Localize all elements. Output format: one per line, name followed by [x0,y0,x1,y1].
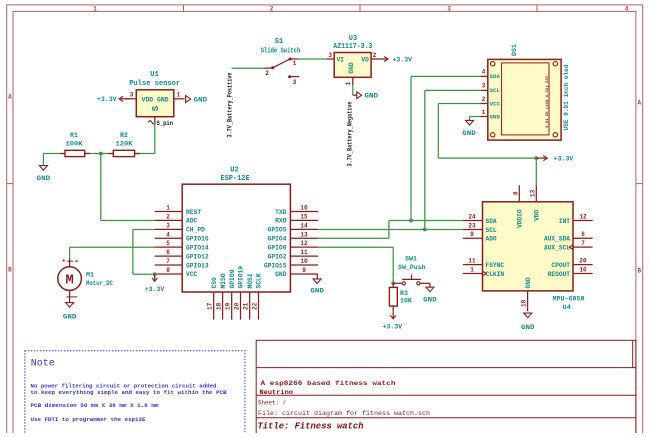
ground at R1 [37,166,51,184]
svg-text:0.91 IN (128 X 32) I2C: 0.91 IN (128 X 32) I2C [545,76,549,128]
U2 pin 13 lead [290,231,318,238]
svg-text:M: M [65,273,73,289]
svg-text:GND: GND [63,314,77,322]
U2 pin 21 lead [243,292,250,320]
svg-text:9: 9 [302,267,306,274]
svg-text:GPIO13: GPIO13 [186,262,209,269]
U2 pin 22 lead [252,292,259,320]
svg-text:3.7V_Battery_Negative: 3.7V_Battery_Negative [346,101,353,166]
U3 pin 3 lead [327,52,334,59]
U4 pin 18 lead [521,291,528,311]
svg-text:GPIO2: GPIO2 [268,253,287,260]
U2 pin 2 lead [155,213,183,220]
svg-text:8: 8 [166,267,170,274]
power +3.3V at U1 [97,96,130,104]
svg-text:GND: GND [490,114,501,121]
svg-text:GND: GND [365,93,379,101]
svg-text:8: 8 [512,191,519,195]
power +3.3V below R3 [383,306,403,331]
ground at U2 pin 9 [310,279,324,295]
svg-text:DS1: DS1 [511,44,518,56]
svg-text:18: 18 [521,299,528,307]
svg-text:S_pin: S_pin [157,120,174,127]
U4 pin 13 lead [529,185,536,202]
svg-text:Title: Fitness watch: Title: Fitness watch [258,421,364,432]
svg-text:1: 1 [470,267,474,274]
svg-text:AUX_SDA: AUX_SDA [544,236,570,243]
svg-text:MOSI: MOSI [247,273,254,288]
svg-text:GPIO12: GPIO12 [186,253,209,260]
svg-text:SCL: SCL [486,227,497,234]
ground at U4 [521,313,535,332]
svg-text:MPU-6050: MPU-6050 [553,296,585,304]
svg-text:VDDIO: VDDIO [517,209,524,228]
U2 pin 3 lead [155,222,183,229]
svg-text:Neutrino: Neutrino [260,389,294,397]
svg-text:3: 3 [293,79,297,86]
wire U1 pin2 down [135,117,155,154]
net label 3.7V_Battery_Negative [346,101,353,166]
title block [256,340,636,435]
wire GPIO0 to SW1 [318,247,393,283]
wire DS1 SDA [411,76,480,220]
svg-text:GPIO15: GPIO15 [264,262,287,269]
svg-text:Use FDTI to programmer the esp: Use FDTI to programmer the esp12E [31,416,147,423]
svg-text:3: 3 [328,52,332,59]
svg-text:ADO: ADO [486,236,497,243]
svg-text:10K: 10K [400,297,412,304]
svg-text:GPIO0: GPIO0 [268,244,287,251]
svg-text:18: 18 [216,302,223,310]
svg-text:5: 5 [166,240,170,247]
U2 pin 18 lead [216,292,223,320]
wire GPIO4 to SDA bus [318,221,463,239]
svg-text:Sheet: /: Sheet: / [258,400,286,407]
svg-text:B: B [637,268,641,275]
wire DS1 gnd [470,117,481,121]
svg-text:7: 7 [581,240,585,247]
svg-text:13: 13 [529,189,536,197]
wire CH_PD to VCC [133,230,155,275]
svg-text:3.7V_Battery_Positive: 3.7V_Battery_Positive [227,72,234,137]
svg-text:B: B [8,267,12,274]
svg-text:REST: REST [186,209,201,216]
svg-text:3: 3 [166,222,170,229]
svg-text:14: 14 [300,222,308,229]
svg-text:VCC: VCC [186,271,198,278]
svg-text:+: + [62,257,66,264]
svg-text:12: 12 [300,240,308,247]
svg-text:20: 20 [579,258,587,265]
svg-text:SCLK: SCLK [256,273,263,288]
DS1 pin 2 lead [480,96,488,103]
ESP-12E U2 [182,167,290,293]
svg-text:2: 2 [482,96,486,103]
svg-text:4: 4 [166,231,170,238]
svg-text:GPIO4: GPIO4 [268,236,287,243]
svg-text:AZ1117-3.3: AZ1117-3.3 [333,43,372,51]
U2 pin 14 lead [290,222,318,229]
svg-text:REGOUT: REGOUT [548,271,571,278]
junction SDA [409,219,413,223]
U4 pin 1 lead [463,267,483,274]
svg-text:3: 3 [482,83,486,90]
wire S1 to U3 [298,58,327,60]
U2 pin 20 lead [234,292,241,320]
svg-text:VDD: VDD [533,210,540,221]
wire R1 to R2 [90,153,108,155]
svg-text:15: 15 [300,213,308,220]
U4 pin 8 lead [512,185,519,202]
resistor R1 [60,132,90,157]
DS1 pin 4 lead [480,69,488,77]
svg-text:1: 1 [482,109,486,116]
DS1 pin 3 lead [480,83,488,91]
svg-text:11: 11 [300,249,308,256]
svg-text:19: 19 [225,302,232,310]
svg-text:GPIO14: GPIO14 [186,244,209,251]
U4 pin 6 lead [573,231,593,238]
U2 pin 5 lead [155,240,183,247]
svg-text:23: 23 [468,223,476,230]
U2 pin 1 lead [155,205,183,212]
wire rail down to U4 VDD [535,158,537,185]
svg-text:MISO: MISO [220,273,227,288]
junction 3.3V rail [534,156,538,160]
junction SCL [423,228,427,232]
U1 pin 1 lead [174,92,185,99]
svg-text:PCB dimension 50 mm X 36 mm X: PCB dimension 50 mm X 36 mm X 1.6 mm [31,402,160,409]
svg-text:12: 12 [579,214,587,221]
svg-text:10: 10 [579,267,587,274]
U2 pin 11 lead [290,249,318,256]
svg-text:2: 2 [265,70,269,77]
svg-text:2: 2 [373,52,377,59]
ground at motor [63,303,77,322]
resistor R2 [108,132,140,157]
svg-text:R1: R1 [70,132,78,139]
svg-text:INT: INT [559,218,570,225]
U4 pin 24 lead [463,214,483,221]
svg-text:2: 2 [270,5,274,12]
svg-text:SW_Push: SW_Push [398,264,426,271]
svg-text:+3.3V: +3.3V [145,286,165,294]
svg-text:M1: M1 [86,272,94,279]
svg-text:AUX_SCL: AUX_SCL [544,244,570,251]
slide switch S1 [261,38,301,86]
wire motor up [69,247,71,258]
U2 pin 17 lead [207,292,214,320]
svg-text:9: 9 [470,231,474,238]
DS1 pin 1 lead [480,109,488,116]
svg-text:GPIO16: GPIO16 [186,236,209,243]
svg-text:VDD GND: VDD GND [142,97,169,104]
svg-text:6: 6 [581,231,585,238]
wire DS1 VCC to 3.3V rail [438,104,536,159]
power +3.3V at U2 VCC [145,274,165,294]
svg-text:17: 17 [207,302,214,310]
wire battery positive to S1 [232,67,264,69]
U4 pin 12 lead [573,214,593,221]
svg-text:U4: U4 [563,304,571,312]
svg-text:SDA: SDA [490,73,501,80]
svg-text:A: A [637,100,641,107]
svg-text:CPOUT: CPOUT [551,262,570,269]
svg-text:TXD: TXD [275,209,287,216]
pulse sensor U1 [129,71,180,117]
regulator U3 AZ1117-3.3 [333,35,372,77]
svg-text:USE 0.91 inch oled: USE 0.91 inch oled [563,64,570,130]
U4 pin 7 lead [573,240,593,247]
svg-text:1: 1 [166,205,170,212]
svg-text:GND: GND [37,175,51,183]
wire GPIO5 to SCL bus [318,229,463,231]
svg-text:6: 6 [166,249,170,256]
motor M1 [58,257,113,302]
svg-text:1: 1 [93,5,97,12]
ground at SW1 [423,287,437,304]
U4 pin 20 lead [573,258,593,265]
svg-text:GND: GND [194,97,208,105]
junction at SW1/R3 [391,281,395,285]
svg-text:24: 24 [468,214,476,221]
svg-text:GND: GND [462,130,476,138]
svg-text:1: 1 [345,81,352,85]
wire motor to GPIO14 [70,246,155,248]
svg-text:GND: GND [275,271,287,278]
svg-text:3: 3 [447,5,451,12]
svg-text:4: 4 [625,5,629,12]
svg-text:R3: R3 [400,290,408,297]
svg-text:SCL: SCL [490,87,501,94]
svg-text:S: S [151,105,161,111]
svg-text:Note: Note [31,359,55,370]
svg-text:RXD: RXD [275,218,287,225]
svg-text:Slide Switch: Slide Switch [261,48,301,56]
U2 pin 6 lead [155,249,183,256]
svg-text:GND: GND [348,62,355,73]
svg-text:SW1: SW1 [405,256,417,263]
U1 pin 3 lead [126,92,136,99]
svg-text:2: 2 [166,213,170,220]
ground at U3 [353,92,378,101]
power +3.3V at rail [536,156,574,164]
net label 3.7V_Battery_Positive [227,72,234,137]
ground at DS1 [462,120,476,138]
svg-text:22: 22 [252,302,259,310]
svg-text:3: 3 [130,92,134,99]
U2 pin 16 lead [290,205,318,212]
svg-text:GPIO5: GPIO5 [268,227,287,234]
svg-text:FSYNC: FSYNC [486,262,505,269]
U2 pin 19 lead [225,292,232,320]
note box [25,351,245,438]
svg-text:7: 7 [166,258,170,265]
svg-text:S1: S1 [275,38,283,46]
push button SW1 [393,256,430,288]
svg-text:+3.3V: +3.3V [393,56,413,64]
svg-text:VO: VO [361,56,369,63]
svg-text:Motor_DC: Motor_DC [86,280,113,287]
svg-text:20: 20 [234,302,241,310]
svg-text:GND: GND [423,297,437,305]
svg-text:VI: VI [337,56,345,63]
svg-text:VCC: VCC [490,101,501,108]
OLED display DS1 [488,44,570,140]
U4 pin 23 lead [463,223,483,230]
wire R1 left to ground [43,154,60,166]
svg-text:to keep everything simple and: to keep everything simple and easy to fi… [31,389,228,396]
svg-text:4: 4 [482,69,486,76]
wire DS1 SCL [425,90,481,229]
svg-text:CS0: CS0 [211,277,218,289]
svg-text:A: A [8,94,12,101]
U3 pin 1 lead [345,77,353,85]
U3 pin 2 lead and power +3.3V [371,52,413,64]
svg-text:GND: GND [310,287,324,295]
svg-text:CLKIN: CLKIN [486,271,505,278]
svg-text:21: 21 [243,302,250,310]
svg-text:+3.3V: +3.3V [383,324,403,332]
svg-text:File: circuit diagram for fitn: File: circuit diagram for fitness watch.… [258,410,430,417]
svg-text:A esp8266 based fitness watch: A esp8266 based fitness watch [261,380,396,388]
svg-text:GPIO9: GPIO9 [229,269,236,288]
U2 pin 8 lead [155,267,183,274]
svg-text:ADC: ADC [186,218,198,225]
junction at R1-R2 node [99,152,103,156]
wire junction down to ADC [101,154,155,221]
svg-text:R2: R2 [120,132,128,139]
wire U2 pin9 to ground [316,274,318,279]
resistor R3 [389,283,412,306]
svg-text:10: 10 [300,258,308,265]
svg-text:13: 13 [300,231,308,238]
svg-text:GND: GND [525,277,532,288]
svg-text:Pulse sensor: Pulse sensor [129,80,180,88]
svg-text:SDA: SDA [486,218,497,225]
svg-text:16: 16 [300,205,308,212]
svg-text:+3.3V: +3.3V [554,156,574,164]
svg-text:1: 1 [293,60,297,67]
U2 pin 9 lead [290,267,318,274]
U2 pin 7 lead [155,258,183,265]
svg-text:U3: U3 [349,35,357,43]
U2 pin 15 lead [290,213,318,220]
svg-text:U2: U2 [230,167,238,175]
svg-text:U1: U1 [150,71,159,79]
wire U3 pin1 to ground [352,85,354,95]
svg-text:1: 1 [177,92,181,99]
svg-text:GPIO10: GPIO10 [238,266,245,289]
U2 pin 10 lead [290,258,318,265]
svg-text:+3.3V: +3.3V [97,96,117,104]
svg-text:120K: 120K [116,140,133,147]
U2 pin 4 lead [155,231,183,238]
svg-text:CH_PD: CH_PD [186,227,205,234]
junction at VCC [153,272,157,276]
svg-text:ESP-12E: ESP-12E [221,175,250,183]
svg-text:GND: GND [521,324,535,332]
U2 pin 12 lead [290,240,318,247]
net label S_pin [148,120,173,127]
U4 pin 10 lead [573,267,593,274]
svg-text:100K: 100K [66,140,83,147]
U4 pin 9 lead [463,231,483,238]
U4 pin 11 lead [463,258,483,265]
IMU U4 MPU-6050 [483,202,585,312]
svg-text:11: 11 [468,258,476,265]
ground at U1 pin 1 [186,96,208,105]
